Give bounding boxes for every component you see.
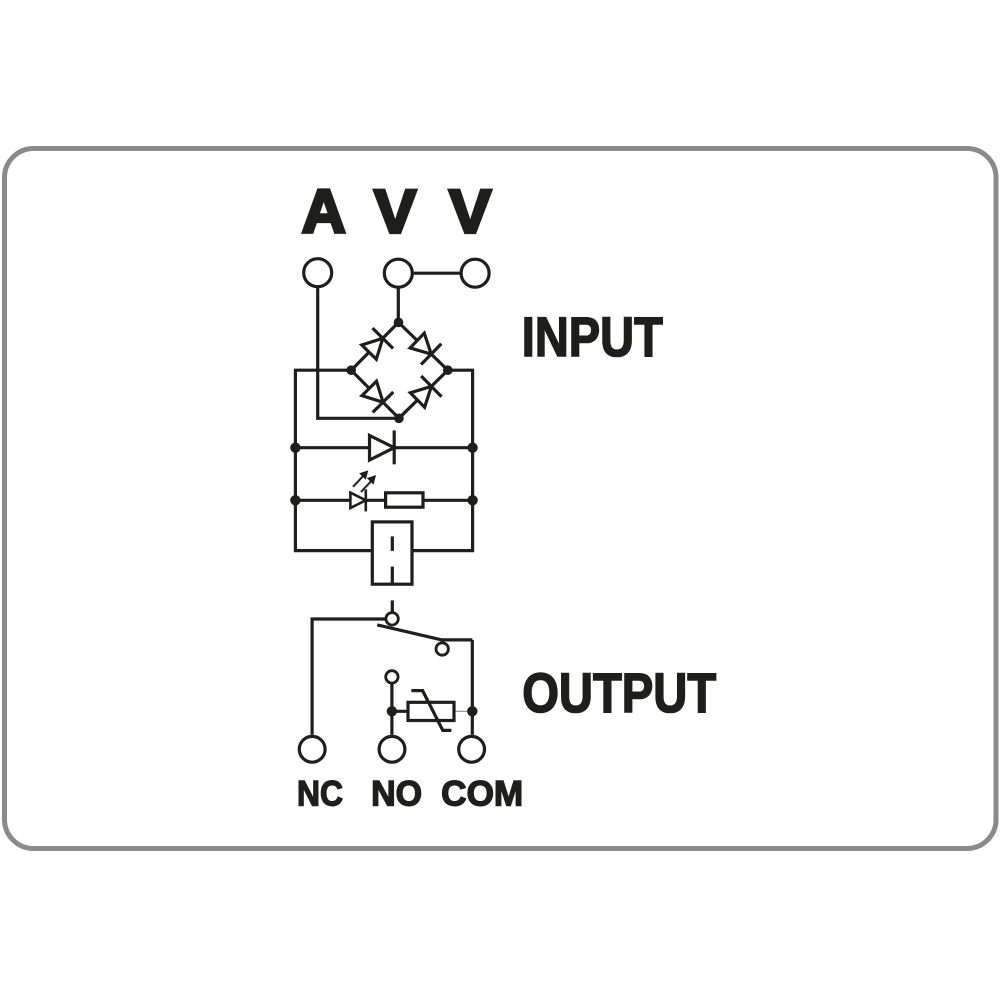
diode D4 (bridge lower-right) — [410, 376, 441, 407]
varistor RV1 — [408, 691, 454, 731]
wire NO node to varistor — [392, 710, 408, 713]
node NO / varistor — [387, 706, 397, 716]
label NC — [297, 774, 343, 813]
wire left rail (bridge left to coil) — [295, 370, 372, 550]
terminal COM — [459, 736, 485, 762]
diode D2 (bridge upper-right) — [410, 333, 441, 364]
wire NO column — [390, 684, 393, 735]
svg-text:A: A — [302, 177, 346, 245]
node bridge left — [346, 365, 356, 375]
terminal NO — [379, 736, 405, 762]
node bridge right — [443, 365, 453, 375]
svg-text:V: V — [374, 177, 417, 245]
wire right rail (bridge right to coil) — [412, 370, 473, 550]
terminal V middle — [384, 259, 412, 287]
node bridge bottom — [394, 414, 404, 424]
node left rail / diode row — [290, 443, 300, 453]
terminal NC — [299, 736, 325, 762]
svg-text:NC: NC — [297, 774, 343, 813]
terminal V right — [461, 259, 489, 287]
switch blade (NC->COM) — [377, 625, 472, 640]
diode D5 (free-wheeling) — [370, 430, 395, 464]
bridge arm bottom-left — [351, 370, 399, 418]
label V (terminal marking) — [374, 177, 417, 245]
bridge arm top-right — [399, 322, 448, 370]
wire varistor to COM node (thin) — [454, 710, 472, 712]
svg-text:INPUT: INPUT — [522, 306, 663, 368]
wire linking V terminals — [398, 272, 475, 275]
label INPUT — [522, 306, 663, 368]
LED indicator — [350, 472, 374, 512]
terminal A — [304, 259, 332, 287]
label V (terminal marking, right) — [449, 177, 492, 245]
bridge arm top-left — [351, 322, 398, 370]
resistor R1 — [386, 493, 423, 507]
label COM — [441, 774, 523, 813]
label NO — [371, 774, 422, 813]
label OUTPUT — [522, 662, 716, 724]
diode D3 (bridge lower-left) — [362, 381, 393, 412]
switch moving contact — [436, 643, 448, 655]
svg-text:NO: NO — [371, 774, 422, 813]
wire diode row — [295, 446, 472, 449]
svg-text:COM: COM — [441, 774, 523, 813]
armature link (dashed) — [391, 536, 394, 612]
diode D1 (bridge upper-left) — [362, 328, 393, 359]
wire from terminal V to bridge top node — [397, 288, 400, 323]
bridge arm bottom-right — [399, 370, 448, 418]
switch pivot contact — [386, 613, 398, 625]
node right rail / diode row — [467, 443, 477, 453]
node left rail / LED row — [290, 495, 300, 505]
switch NO contact — [386, 671, 398, 683]
enclosure frame — [5, 149, 997, 849]
wire COM column — [471, 640, 474, 735]
label A (terminal marking) — [302, 177, 346, 245]
node bridge top — [394, 318, 404, 328]
wire NC branch — [312, 619, 385, 735]
svg-text:OUTPUT: OUTPUT — [522, 662, 716, 724]
relay coil K1 — [372, 522, 412, 584]
node right rail / LED row — [467, 495, 477, 505]
wire LED row — [295, 499, 472, 502]
wire from terminal A to bridge bottom node — [318, 287, 399, 418]
svg-text:V: V — [449, 177, 492, 245]
node COM / varistor — [467, 706, 477, 716]
